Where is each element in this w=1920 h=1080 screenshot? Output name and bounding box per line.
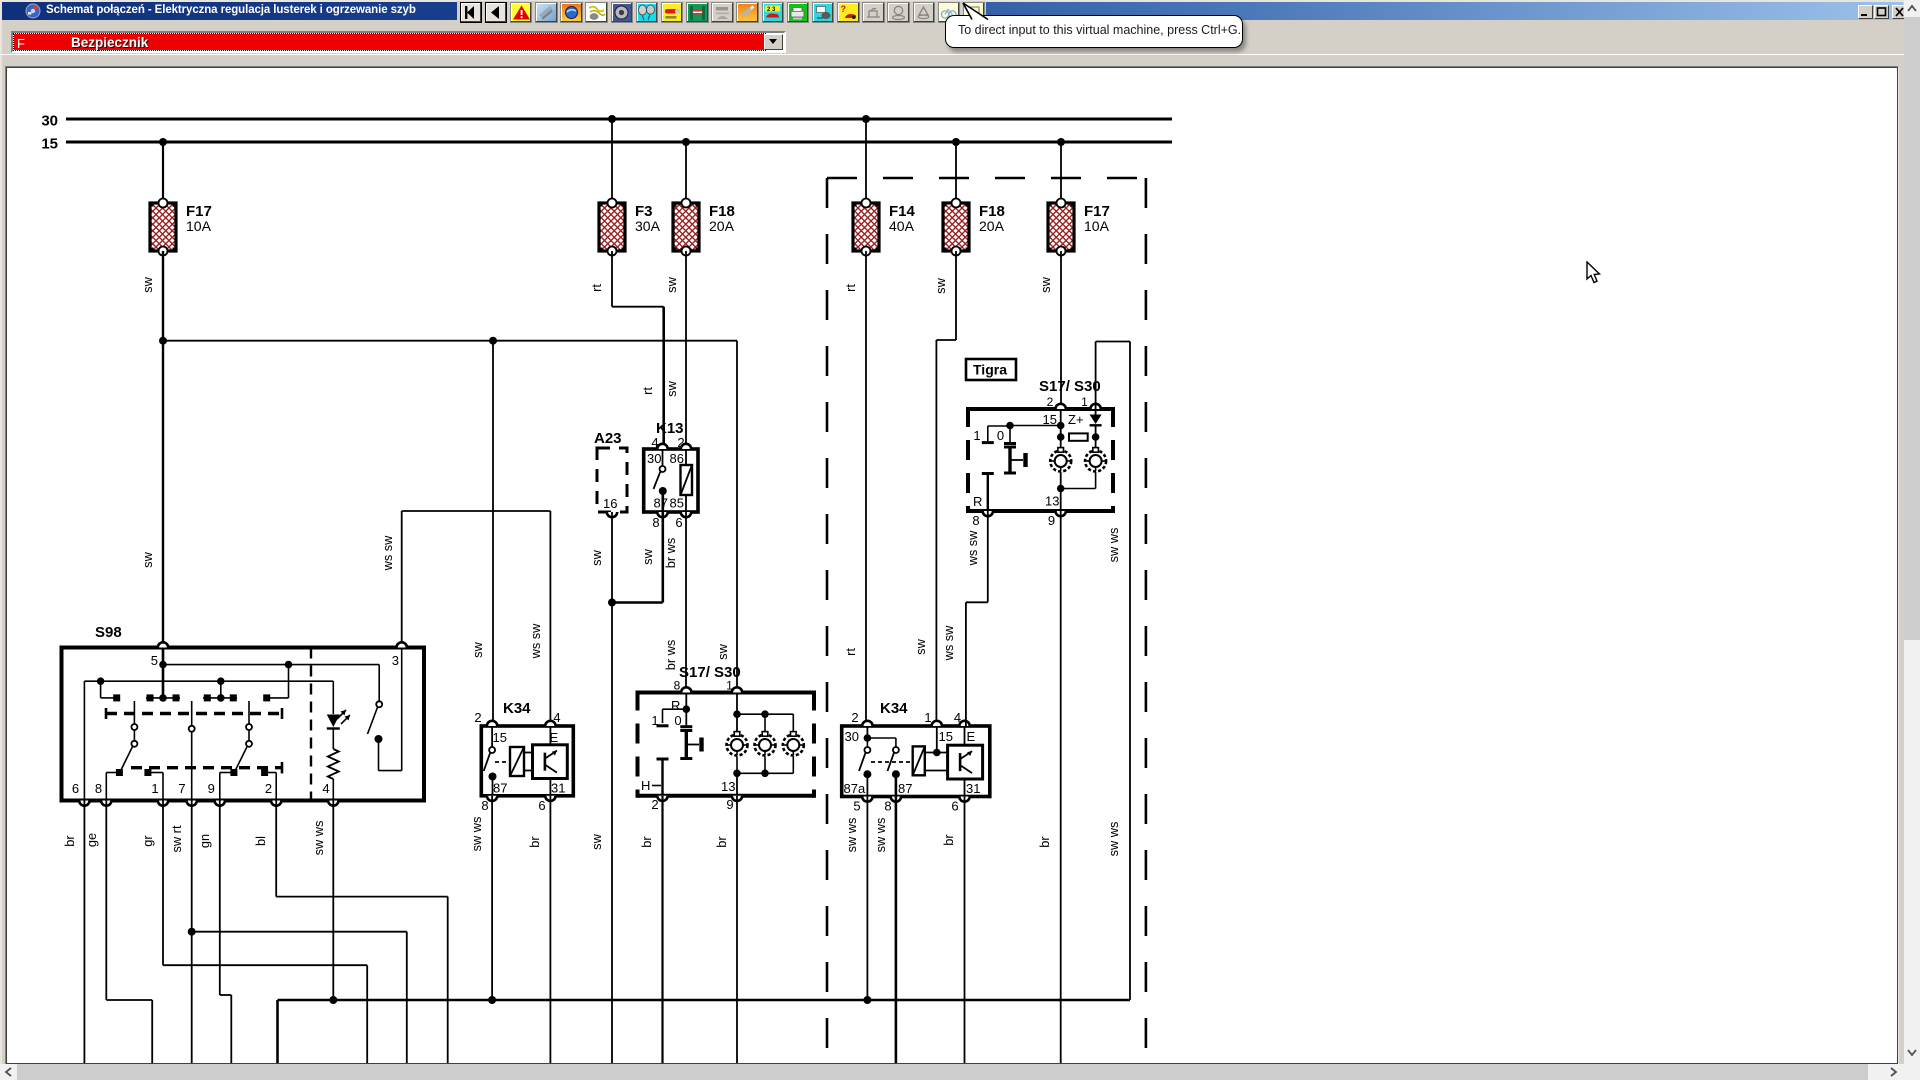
wire br from S17/S30 top pin9 (1037, 511, 1061, 1063)
wire br from S98 pin6 (62, 801, 84, 1064)
wire sw from F18 to K13 pin2 (664, 251, 686, 449)
VMware tooltip (955, 2, 1000, 24)
svg-text:sw: sw (664, 276, 679, 292)
fuse F14 40A (852, 199, 916, 256)
wire sw from F18 right to K34 right pin1 (913, 251, 956, 726)
wire sw below F17 left (140, 251, 163, 648)
svg-text:3: 3 (392, 653, 399, 668)
svg-text:Z+: Z+ (1068, 412, 1084, 427)
svg-text:sw: sw (140, 551, 155, 567)
svg-text:16: 16 (603, 496, 617, 511)
wire bl from S98 pin2 (253, 801, 448, 1064)
fuse F17 10A (left) (149, 199, 212, 256)
fuse F3 30A (598, 199, 661, 256)
svg-text:15: 15 (41, 136, 58, 153)
svg-text:gr: gr (140, 835, 155, 847)
svg-text:9: 9 (1048, 513, 1055, 528)
wire sw ws from S98 pin4 to bus node (311, 801, 333, 1001)
relay K34 (right) (842, 700, 990, 814)
bus 30 (41, 113, 1172, 130)
component A23 dashed box (594, 430, 627, 517)
svg-text:6: 6 (675, 515, 682, 530)
svg-text:1: 1 (973, 428, 980, 443)
svg-text:6: 6 (538, 798, 545, 813)
svg-text:8: 8 (481, 798, 488, 813)
sw ws collector bus (278, 996, 1129, 1063)
svg-text:?: ? (840, 4, 846, 14)
svg-text:8: 8 (674, 679, 681, 693)
svg-text:K34: K34 (880, 700, 908, 717)
svg-text:40A: 40A (889, 218, 915, 234)
svg-text:ws sw: ws sw (965, 530, 980, 567)
svg-text:sw: sw (589, 549, 604, 565)
wire ge from S98 pin8 (84, 801, 152, 1064)
svg-text:A23: A23 (594, 430, 622, 447)
fuse F17 10A (right) (1047, 199, 1110, 256)
app icon (25, 3, 42, 19)
svg-text:H: H (641, 778, 650, 793)
Tigra variant label box (966, 359, 1016, 380)
wire sw ws from K34 right pin8 (873, 797, 896, 1064)
svg-text:br: br (941, 834, 956, 846)
window title bar (2, 2, 1903, 20)
svg-text:sw: sw (913, 638, 928, 654)
wire br from S17/S30 center pin2 (639, 796, 663, 1063)
svg-text:15: 15 (493, 730, 507, 745)
svg-text:gn: gn (197, 834, 212, 848)
svg-text:sw rt: sw rt (169, 825, 184, 852)
svg-text:br ws: br ws (663, 640, 678, 671)
svg-text:1: 1 (1081, 395, 1088, 409)
svg-text:sw ws: sw ws (873, 818, 888, 853)
wire F3 feed from bus 30 (611, 119, 613, 203)
wire br from S17/S30 center pin9 (714, 796, 737, 1063)
wire F14 feed from bus 30 (865, 119, 867, 203)
svg-text:31: 31 (966, 781, 980, 796)
wire F18b feed from bus 15 (955, 142, 957, 203)
heated window switch S17/S30 (center) (638, 664, 815, 812)
bus 15 (41, 136, 1172, 153)
fuse F18 20A (left) (672, 199, 735, 256)
svg-text:6: 6 (72, 781, 79, 796)
svg-text:sw ws: sw ws (469, 817, 484, 852)
svg-text:br: br (714, 836, 729, 848)
wire br ws from K13 pin6 to S17/S30 center pin8 (663, 512, 686, 693)
wire sw ws from K34 left pin8 to bus (469, 796, 492, 1000)
svg-text:Tigra: Tigra (973, 362, 1007, 378)
svg-text:86: 86 (670, 451, 684, 466)
svg-text:2: 2 (1047, 395, 1054, 409)
svg-text:5: 5 (151, 653, 158, 668)
window buttons (1858, 5, 1873, 19)
svg-text:ws sw: ws sw (941, 625, 956, 662)
wire sw from F17 right to S17/S30 top pin2 (1038, 251, 1061, 409)
svg-text:rt: rt (843, 284, 858, 292)
svg-text:sw ws: sw ws (1106, 822, 1121, 857)
svg-text:R: R (973, 494, 982, 509)
svg-text:K13: K13 (656, 420, 684, 437)
svg-text:2: 2 (651, 797, 658, 812)
svg-text:sw: sw (1038, 276, 1053, 292)
wire sw rt from S98 pin7 (169, 801, 407, 1064)
svg-text:30A: 30A (635, 218, 661, 234)
svg-text:sw: sw (715, 643, 730, 659)
svg-text:br: br (639, 836, 654, 848)
relay K13 (644, 420, 698, 530)
wire sw horizontal distribution node (159, 337, 737, 345)
svg-text:br: br (1037, 836, 1052, 848)
svg-text:ws sw: ws sw (380, 535, 395, 572)
wire sw from A23 pin16 down (589, 512, 612, 1063)
heated window switch S17/S30 (top, Tigra) (968, 378, 1113, 528)
svg-text:2: 2 (474, 710, 481, 725)
wire ws sw S98 pin3 to K34 left pin4 (380, 511, 550, 726)
svg-text:R: R (671, 698, 680, 713)
svg-text:6: 6 (951, 799, 958, 814)
svg-text:sw: sw (933, 277, 948, 293)
junction dots on bus 30 (608, 115, 870, 123)
wire sw from K13 pin8 to A23 node (608, 512, 663, 607)
svg-text:2 3: 2 3 (767, 6, 776, 12)
svg-text:20A: 20A (979, 218, 1005, 234)
svg-text:30: 30 (41, 113, 58, 130)
wire sw down to K34 left pin2 (470, 341, 493, 726)
svg-text:K34: K34 (503, 700, 531, 717)
svg-text:ge: ge (84, 833, 99, 847)
svg-text:87: 87 (654, 496, 668, 511)
svg-text:E: E (967, 729, 976, 744)
wire sw ws from K34 right pin5 to bus (844, 797, 867, 1001)
mirror adjuster switch S98 (62, 624, 425, 806)
wire br from K34 left pin6 (527, 796, 550, 1063)
wire rt from F14 to K34 right pin2 (843, 251, 866, 726)
svg-text:5: 5 (853, 799, 860, 814)
svg-text:8: 8 (95, 781, 102, 796)
wire ws sw from S17/S30 top pin8 to K34 right pin4 (941, 511, 988, 726)
svg-text:rt: rt (640, 387, 655, 395)
svg-text:S98: S98 (95, 624, 122, 641)
svg-text:10A: 10A (186, 218, 212, 234)
wire gr from S98 pin1 (140, 801, 367, 1064)
svg-text:13: 13 (1045, 494, 1059, 509)
svg-text:sw: sw (589, 833, 604, 849)
svg-text:31: 31 (551, 781, 565, 796)
svg-text:87a: 87a (844, 781, 866, 796)
wire br from K34 right pin6 (941, 797, 965, 1064)
svg-text:br: br (62, 835, 77, 847)
svg-text:rt: rt (843, 648, 858, 656)
mouse cursor (1584, 261, 1604, 287)
svg-text:sw ws: sw ws (1106, 528, 1121, 563)
wire F17b feed from bus 15 (1060, 142, 1062, 203)
svg-text:85: 85 (670, 496, 684, 511)
svg-text:8: 8 (972, 513, 979, 528)
svg-text:2: 2 (265, 781, 272, 796)
svg-text:sw ws: sw ws (844, 818, 859, 853)
svg-text:8: 8 (884, 799, 891, 814)
fuse F18 20A (right) (942, 199, 1005, 256)
wire sw ws loop from S17/S30 top pin1 to bus (1096, 342, 1130, 1001)
wire F18 feed from bus 15 (685, 142, 687, 203)
svg-text:rt: rt (589, 284, 604, 292)
svg-text:10A: 10A (1084, 218, 1110, 234)
svg-text:13: 13 (721, 779, 735, 794)
svg-text:sw: sw (470, 641, 485, 657)
svg-text:4: 4 (322, 781, 329, 796)
Tigra region dashed boundary (827, 178, 1146, 1063)
svg-text:8: 8 (652, 515, 659, 530)
svg-text:87: 87 (493, 781, 507, 796)
wire F17a feed from bus 15 (162, 142, 164, 203)
svg-text:sw ws: sw ws (311, 821, 326, 856)
svg-text:S17/ S30: S17/ S30 (1039, 378, 1101, 395)
wire sw down to S17/S30 center pin1 (715, 341, 737, 693)
fuse selection combobox (11, 31, 786, 53)
svg-text:sw: sw (664, 380, 679, 396)
svg-text:87: 87 (898, 781, 912, 796)
svg-text:sw: sw (640, 548, 655, 564)
svg-text:2: 2 (851, 710, 858, 725)
svg-text:20A: 20A (709, 218, 735, 234)
svg-text:1: 1 (924, 710, 931, 725)
svg-text:br: br (527, 836, 542, 848)
relay K34 (left) (474, 700, 573, 813)
svg-text:30: 30 (647, 451, 661, 466)
junction dots on bus 15 (159, 138, 1065, 146)
svg-text:1: 1 (151, 781, 158, 796)
scrollbars (1904, 0, 1920, 1080)
svg-text:0: 0 (997, 428, 1004, 443)
svg-text:7: 7 (178, 781, 185, 796)
svg-text:30: 30 (845, 729, 859, 744)
svg-text:ws sw: ws sw (528, 623, 543, 660)
svg-text:15: 15 (939, 729, 953, 744)
wire gn from S98 pin9 (197, 801, 231, 1064)
svg-text:sw: sw (140, 276, 155, 292)
svg-text:br ws: br ws (663, 538, 678, 569)
svg-text:9: 9 (726, 797, 733, 812)
svg-text:9: 9 (208, 781, 215, 796)
wire rt from F3 to K13 pin4 (589, 251, 664, 449)
svg-text:bl: bl (253, 836, 268, 846)
